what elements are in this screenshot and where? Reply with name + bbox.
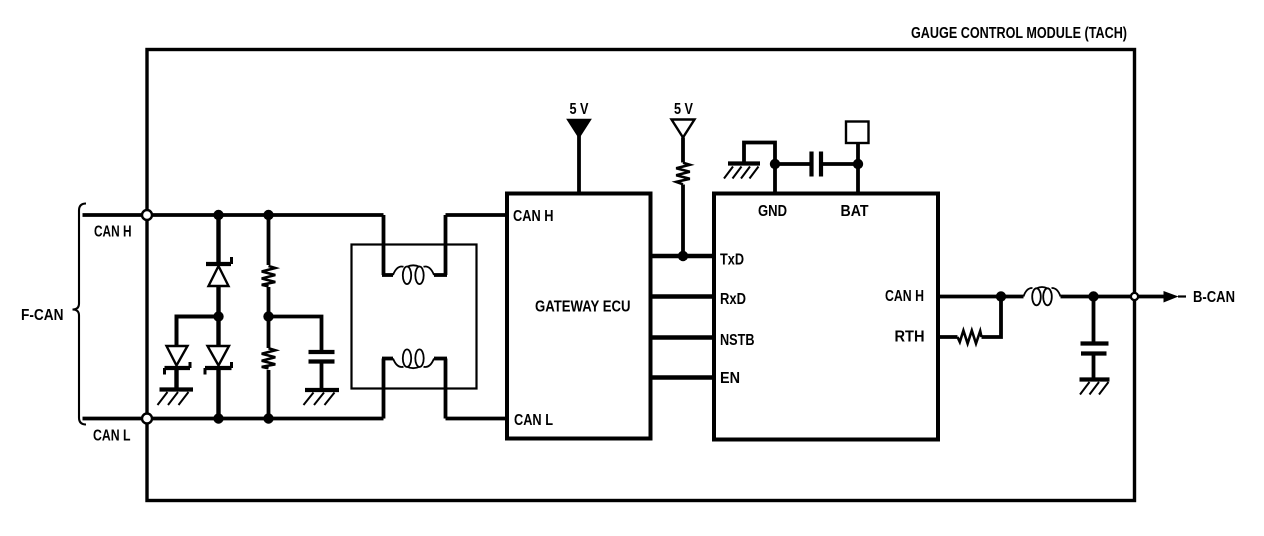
junction dots CAN H line [213, 210, 223, 220]
svg-text:GAUGE CONTROL MODULE (TACH): GAUGE CONTROL MODULE (TACH) [911, 25, 1127, 42]
resistor R2 (node to CAN L) [262, 317, 276, 419]
wire BAT pin [856, 143, 860, 194]
bus line TxD [651, 254, 715, 259]
ground G3 (GND pin) [724, 164, 760, 179]
bus line NSTB [651, 335, 715, 340]
resistor R4 (RTH) [958, 331, 982, 344]
wire R4 to RTH pin [938, 335, 958, 339]
svg-text:EN: EN [720, 370, 740, 387]
zener diode D2 (left, to ground) [165, 346, 191, 388]
bus line RxD [651, 294, 715, 299]
F-CAN brace [73, 204, 87, 425]
junction dots CAN L line [213, 413, 223, 423]
wire choke to ECU CAN H [446, 213, 508, 217]
inductor L2 (B-CAN line) [1024, 287, 1061, 305]
svg-text:5 V: 5 V [674, 101, 693, 118]
GATEWAY ECU box [507, 194, 651, 439]
wire GND pin [773, 164, 777, 194]
choke winding L1 top (CAN H) [382, 215, 447, 284]
ground G1 (under D2) [158, 390, 194, 406]
capacitor C2 [812, 152, 822, 177]
svg-text:RTH: RTH [895, 329, 925, 346]
wire GND loop to ground [744, 143, 775, 165]
CAN transceiver box [714, 194, 938, 440]
svg-text:B-CAN: B-CAN [1193, 289, 1235, 306]
junction dot C3 node [1088, 291, 1098, 301]
zener diode D3 (node to CAN L) [205, 317, 232, 419]
svg-text:CAN H: CAN H [513, 208, 554, 225]
5V supply (open) with pull-up resistor R3 [672, 101, 695, 256]
connector circle CAN L (on module edge) [142, 414, 152, 424]
svg-text:TxD: TxD [720, 252, 744, 269]
svg-text:BAT: BAT [841, 203, 869, 220]
connector square (BAT) [846, 122, 869, 144]
junction dot GND node [770, 159, 780, 169]
svg-text:GND: GND [758, 203, 787, 220]
zener diode D1 (CAN H to node) [206, 215, 232, 317]
wire RTH loop [982, 297, 1002, 338]
ground G2 (under C1) [304, 390, 340, 405]
wire C3 node down [1092, 297, 1096, 342]
5V supply (filled) over ECU [568, 101, 591, 194]
svg-text:CAN L: CAN L [514, 412, 553, 429]
junction dots middle node [213, 311, 223, 321]
svg-text:NSTB: NSTB [720, 332, 755, 349]
svg-text:CAN H: CAN H [885, 288, 924, 305]
wire CAN L main (left) [83, 417, 384, 421]
arrow B-CAN [1164, 291, 1179, 303]
ground G4 (under C3) [1080, 380, 1110, 395]
wire CAN H main (left) [83, 213, 384, 217]
svg-text:RxD: RxD [720, 291, 746, 308]
junction dot TxD node [678, 251, 688, 261]
connector circle B-CAN (on module edge) [1131, 293, 1138, 300]
svg-text:CAN L: CAN L [93, 428, 131, 445]
svg-text:CAN H: CAN H [94, 224, 132, 241]
capacitor C3 [1081, 344, 1109, 378]
common-mode choke box [352, 245, 477, 389]
wire node to capacitor C1 [269, 317, 322, 351]
connector circle CAN H (on module edge) [142, 210, 152, 220]
module box GAUGE CONTROL MODULE outline [147, 50, 1135, 501]
wire choke to ECU CAN L [446, 417, 508, 421]
junction dot BAT node [853, 159, 863, 169]
wire GND dot to capacitor C2 [775, 162, 810, 166]
choke winding L1 bottom (CAN L) [382, 349, 447, 418]
junction dot CAN H output [996, 291, 1006, 301]
resistor R1 (CAN H to node) [262, 215, 276, 317]
svg-text:GATEWAY ECU: GATEWAY ECU [535, 299, 631, 316]
svg-text:5 V: 5 V [570, 101, 589, 118]
wire L2 to B-CAN [1061, 295, 1165, 299]
capacitor C1 [309, 352, 335, 388]
wire node to left branch [177, 317, 219, 347]
wire CAN H output [938, 295, 1024, 299]
bus line EN [651, 375, 715, 380]
svg-text:F-CAN: F-CAN [21, 307, 64, 324]
wire C2 to BAT node [821, 162, 858, 166]
